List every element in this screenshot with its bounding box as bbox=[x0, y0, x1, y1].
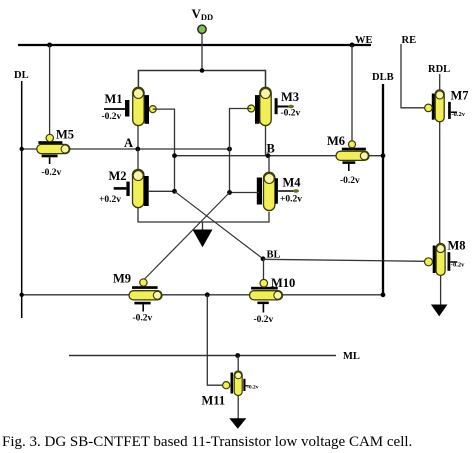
wire ML to M11 drain bbox=[237, 356, 239, 372]
wire DLB bbox=[382, 84, 384, 295]
wire A to M2 drain bbox=[137, 149, 139, 170]
node A bbox=[135, 147, 140, 152]
wire B to M4 drain bbox=[268, 156, 270, 173]
transistor M7 (mirrored small) bbox=[425, 89, 469, 122]
transistor M8 (mirrored small) bbox=[425, 239, 466, 276]
svg-text:-0.2v: -0.2v bbox=[281, 108, 301, 118]
node M9/M10 midpoint bbox=[205, 292, 210, 297]
wire M1-M3 drain rail bbox=[138, 71, 265, 88]
transistor M3 (mirrored) bbox=[248, 87, 301, 125]
node BL bbox=[261, 256, 266, 261]
node A to M3/M4 gate column bbox=[227, 147, 232, 152]
wire M7 to M8 (RDL column) bbox=[439, 122, 441, 244]
ground (M11) bbox=[229, 418, 246, 429]
svg-text:M5: M5 bbox=[56, 128, 74, 142]
wire WE rail bbox=[18, 44, 371, 46]
wire BL down to M10 gate bbox=[263, 259, 265, 280]
node B-DLB junction bbox=[381, 153, 386, 158]
svg-text:B: B bbox=[267, 142, 275, 156]
node M4 gate junction bbox=[227, 190, 232, 195]
transistor M6 bbox=[327, 134, 369, 186]
wire M6 gate from WE rail bbox=[351, 45, 353, 141]
node DLB junction bbox=[381, 292, 386, 297]
wire M1/M2 gate column bbox=[153, 109, 175, 191]
svg-text:DL: DL bbox=[14, 70, 29, 81]
wire M8 source to ground bbox=[440, 276, 442, 305]
svg-text:RDL: RDL bbox=[428, 64, 450, 75]
node VDD junction bbox=[200, 68, 205, 73]
wire RE bbox=[401, 44, 425, 108]
ground (M8) bbox=[431, 305, 448, 317]
transistor M10 bbox=[250, 276, 296, 325]
svg-text:M4: M4 bbox=[283, 176, 302, 190]
transistor M11 (mirrored tiny) bbox=[202, 371, 259, 408]
svg-text:VDD: VDD bbox=[192, 6, 214, 22]
svg-text:M8: M8 bbox=[448, 239, 466, 253]
svg-text:DLB: DLB bbox=[372, 72, 394, 83]
transistor M2 bbox=[99, 169, 149, 208]
svg-text:M11: M11 bbox=[202, 394, 226, 408]
transistor M5 bbox=[37, 128, 74, 179]
power VDD terminal bbox=[198, 25, 206, 33]
wire cross-couple diagonal to BL bbox=[175, 191, 264, 258]
wire M3 source to B bbox=[265, 126, 267, 156]
wire ML bbox=[69, 355, 336, 357]
svg-text:+0.2v: +0.2v bbox=[280, 195, 302, 205]
wire M9/M10 midpoint to M11 gate bbox=[207, 295, 222, 385]
wire M5 gate from WE rail bbox=[49, 45, 51, 135]
node WE junction to M5 gate bbox=[47, 43, 52, 48]
svg-text:Fig. 3. DG SB-CNTFET based 11-: Fig. 3. DG SB-CNTFET based 11-Transistor… bbox=[2, 434, 412, 450]
transistor M9 bbox=[113, 272, 162, 324]
svg-text:-0.2v: -0.2v bbox=[247, 385, 259, 391]
node WE junction to M6 gate bbox=[350, 43, 355, 48]
svg-text:RE: RE bbox=[402, 35, 417, 46]
svg-text:-0.2v: -0.2v bbox=[254, 315, 274, 325]
node M2 gate junction bbox=[172, 189, 177, 194]
wire node A horizontal (DL to cross-coupling) bbox=[22, 148, 230, 150]
svg-text:ML: ML bbox=[343, 351, 360, 362]
svg-text:-0.2v: -0.2v bbox=[451, 262, 465, 269]
svg-text:-0.2v: -0.2v bbox=[102, 112, 122, 122]
transistor M1 bbox=[102, 87, 157, 125]
svg-text:-0.2v: -0.2v bbox=[42, 168, 62, 178]
node DL-A junction bbox=[20, 147, 24, 151]
svg-text:A: A bbox=[124, 136, 133, 150]
wire A column to M3/M4 gates bbox=[230, 109, 252, 193]
node B-column junction bbox=[172, 153, 177, 158]
node DL junction bbox=[20, 293, 24, 297]
wire VDD stem bbox=[201, 34, 203, 71]
node ML-M11 junction bbox=[235, 353, 240, 358]
svg-text:M10: M10 bbox=[271, 276, 295, 290]
node B bbox=[266, 153, 271, 158]
wire cross-couple diagonal to M9 gate bbox=[144, 193, 230, 281]
wire M4 gate to A column bbox=[230, 192, 259, 194]
wire M2 gate to B column bbox=[149, 190, 175, 192]
wire BL to M8 gate bbox=[263, 259, 425, 261]
svg-text:M6: M6 bbox=[327, 134, 345, 148]
wire DL bbox=[21, 81, 23, 318]
svg-text:-0.2v: -0.2v bbox=[452, 111, 466, 118]
svg-text:M7: M7 bbox=[451, 89, 469, 103]
wire M1 drain to node A bbox=[137, 126, 139, 149]
transistor M4 (mirrored) bbox=[257, 172, 302, 210]
svg-text:+0.2v: +0.2v bbox=[99, 195, 121, 205]
svg-text:-0.2v: -0.2v bbox=[133, 314, 153, 324]
wire M11 source to ground bbox=[237, 396, 239, 419]
svg-text:M1: M1 bbox=[105, 92, 123, 106]
svg-text:M2: M2 bbox=[109, 169, 127, 183]
wire node B horizontal bbox=[175, 155, 384, 157]
wire M2/M4 sources to ground bbox=[138, 208, 269, 222]
svg-text:M9: M9 bbox=[113, 272, 131, 286]
wire RDL bbox=[439, 74, 441, 90]
wire match path rail (DL to DLB) bbox=[22, 294, 383, 296]
svg-text:M3: M3 bbox=[281, 90, 299, 104]
svg-text:WE: WE bbox=[355, 35, 373, 46]
ground (cell) bbox=[202, 222, 204, 231]
svg-text:-0.2v: -0.2v bbox=[340, 176, 360, 186]
